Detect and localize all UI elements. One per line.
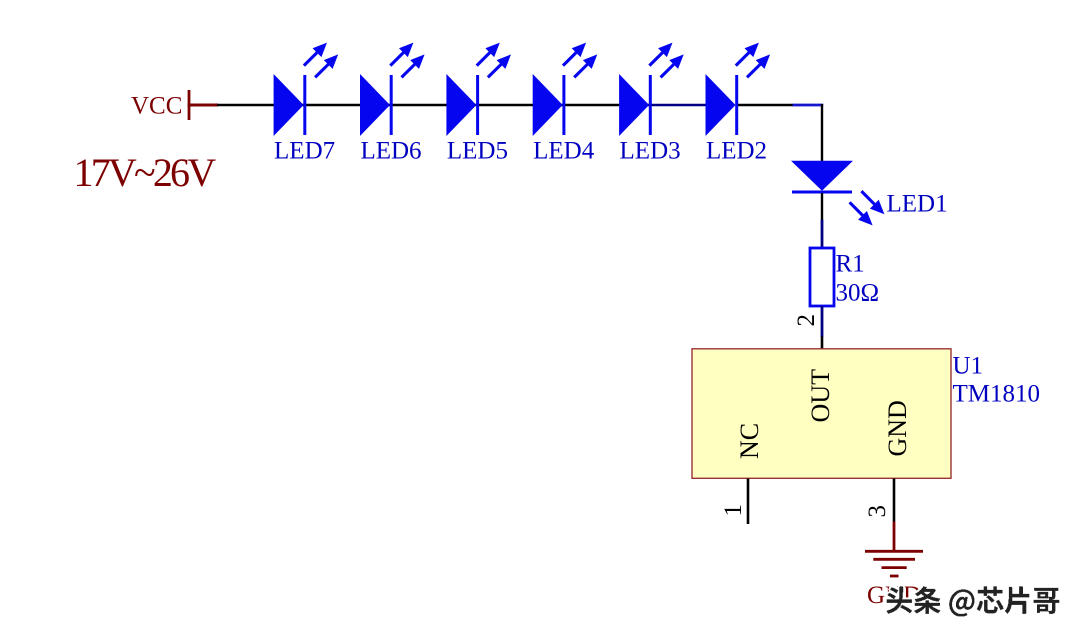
wire LED1 cathode stub xyxy=(821,193,823,220)
svg-text:LED3: LED3 xyxy=(620,138,681,165)
LED LED1 xyxy=(791,161,884,226)
wire VCC to LED chain xyxy=(217,104,649,106)
wire pin3 to ground xyxy=(893,522,896,551)
svg-text:U1: U1 xyxy=(953,352,984,379)
wire LED3 to LED2 xyxy=(649,104,707,107)
svg-text:VCC: VCC xyxy=(131,93,182,120)
wire resistor to U1 xyxy=(821,306,824,337)
watermark 头条 @芯片哥 xyxy=(885,584,1062,618)
ground symbol xyxy=(865,551,923,576)
LED LED5 xyxy=(446,43,511,136)
svg-text:LED4: LED4 xyxy=(533,138,595,165)
pin 3 stub (GND) xyxy=(893,479,896,522)
LED LED3 xyxy=(619,43,684,136)
svg-text:LED1: LED1 xyxy=(887,191,948,218)
svg-text:LED7: LED7 xyxy=(274,138,335,165)
svg-text:LED5: LED5 xyxy=(447,138,508,165)
LED LED2 xyxy=(706,43,771,136)
LED LED6 xyxy=(360,43,425,136)
svg-text:17V~26V: 17V~26V xyxy=(74,150,217,195)
svg-text:LED2: LED2 xyxy=(706,138,767,165)
pin 1 stub (NC) xyxy=(747,479,750,525)
svg-text:OUT: OUT xyxy=(806,369,835,423)
wire blue segment before corner xyxy=(793,104,824,107)
svg-text:R1: R1 xyxy=(836,251,865,278)
LED LED4 xyxy=(533,43,598,136)
svg-text:1: 1 xyxy=(720,504,747,517)
power port VCC xyxy=(188,90,218,120)
svg-text:3: 3 xyxy=(864,505,891,518)
wire to resistor xyxy=(821,220,824,250)
op-amp/IC U1 body xyxy=(692,349,951,479)
svg-text:GND: GND xyxy=(883,400,912,456)
wire LED2 to corner xyxy=(737,104,793,106)
svg-text:2: 2 xyxy=(793,314,820,327)
svg-text:LED6: LED6 xyxy=(360,138,421,165)
wire corner down to LED1 xyxy=(821,104,823,162)
pin 2 stub of U1 xyxy=(821,337,824,350)
svg-text:NC: NC xyxy=(735,423,764,459)
resistor R1 xyxy=(810,248,834,306)
LED LED7 xyxy=(274,43,339,136)
svg-text:30Ω: 30Ω xyxy=(836,280,880,307)
svg-text:TM1810: TM1810 xyxy=(953,380,1041,407)
